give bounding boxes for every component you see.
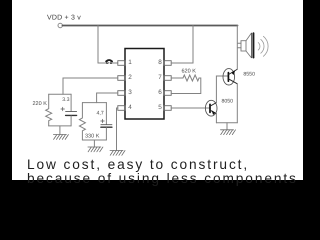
wire pin2 to group1 <box>63 78 118 94</box>
svg-text:5: 5 <box>158 103 162 111</box>
group2 bottom wire <box>82 139 106 141</box>
pin 2 box <box>118 76 125 81</box>
speaker cone <box>246 33 251 57</box>
group1 bottom wire <box>49 125 71 127</box>
svg-text:7: 7 <box>158 73 162 81</box>
wire Q1 emitter to rail <box>236 26 238 70</box>
pin numbers 1-4 and 8-5 <box>128 58 162 111</box>
wire switch to pin1 <box>112 62 118 64</box>
pin 5 box <box>164 106 171 111</box>
ground G1 <box>59 126 61 135</box>
svg-text:8050: 8050 <box>222 98 234 104</box>
svg-text:330 K: 330 K <box>85 133 100 139</box>
VDD rail <box>63 25 238 27</box>
capacitor C2 4.7 <box>105 103 107 125</box>
svg-text:3: 3 <box>128 88 132 96</box>
ground G3 <box>110 151 125 156</box>
speaker waves <box>258 36 268 56</box>
svg-text:8: 8 <box>158 58 162 66</box>
pin 3 box <box>118 91 125 96</box>
pin 7 box <box>164 76 171 81</box>
resistor R2 330K <box>79 103 85 140</box>
group2 top wire <box>82 102 106 104</box>
wire Q2 emitter down <box>215 113 217 122</box>
capacitor C1 3.3 <box>70 94 72 111</box>
svg-text:3.3: 3.3 <box>62 97 69 103</box>
svg-text:6: 6 <box>158 88 162 96</box>
pin 8 box <box>164 61 171 66</box>
speaker LS1 stubs <box>238 43 242 48</box>
wire Q2 collector to Q1 base <box>216 76 228 103</box>
svg-text:8550: 8550 <box>243 72 255 78</box>
speaker body <box>241 41 246 51</box>
transistor Q1 8550 <box>223 69 235 85</box>
svg-text:220 K: 220 K <box>33 101 48 107</box>
svg-text:4: 4 <box>128 103 132 111</box>
group1 top wire <box>49 93 71 95</box>
wire pin3 to group2 <box>97 93 118 103</box>
caption text <box>27 158 298 187</box>
wire pin5 to Q2 base <box>171 107 210 109</box>
transistor Q2 8050 <box>205 100 217 116</box>
svg-text:4,7: 4,7 <box>97 110 104 116</box>
svg-text:2: 2 <box>128 73 132 81</box>
wire riser pin1 <box>97 26 99 64</box>
bottom wire right <box>216 122 237 124</box>
wire Q1 collector down <box>236 84 238 123</box>
white canvas <box>12 0 303 180</box>
ground G2 <box>93 140 95 147</box>
svg-text:620 K: 620 K <box>182 68 197 74</box>
pin 4 box <box>118 106 125 111</box>
pin 6 box <box>164 91 171 96</box>
resistor R1 220K <box>46 94 52 126</box>
wire pin8 to rail <box>171 26 193 64</box>
switch S1 <box>106 62 108 64</box>
ground G4 <box>226 123 228 130</box>
svg-text:VDD + 3 v: VDD + 3 v <box>47 13 81 21</box>
IC U1 body <box>125 49 164 120</box>
svg-text:1: 1 <box>128 58 132 66</box>
resistor R3 620K pin7 to pin6 <box>171 75 201 94</box>
wire pin1 left <box>98 62 106 64</box>
wire pin4 to ground <box>117 108 118 151</box>
pin 1 box <box>118 61 125 66</box>
VDD terminal circle <box>58 23 62 27</box>
